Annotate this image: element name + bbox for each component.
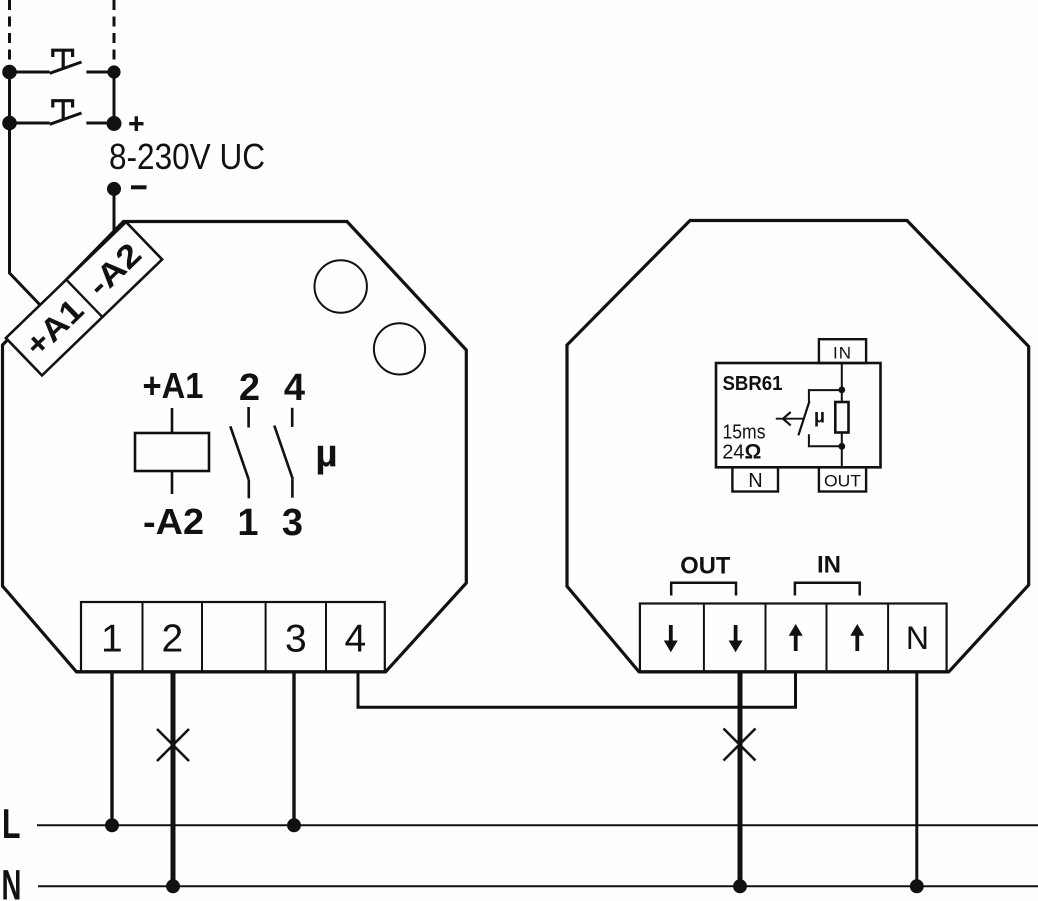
svg-text:1: 1 (101, 618, 123, 661)
svg-text:N: N (906, 620, 929, 656)
pushbutton T1 wire left (10, 71, 50, 74)
terminal strip right octagon (639, 604, 949, 672)
rail L (37, 824, 1038, 826)
svg-text:IN: IN (817, 552, 841, 579)
svg-text:2: 2 (161, 618, 183, 661)
pushbutton T2 blade (50, 113, 82, 124)
wire: dashed lead-in left pushbutton (8, 0, 11, 66)
wire: terminal 1 to L (110, 671, 113, 825)
wire: right OUT terminal to N thick (738, 671, 743, 886)
device: right octagon outline (567, 221, 1029, 672)
wire: terminal 2 to N thick (171, 671, 176, 886)
contact switch 1-2 (230, 407, 249, 498)
node: plus terminal dot (107, 116, 122, 131)
svg-text:µ: µ (814, 407, 825, 428)
node: pushbutton junction dots (2, 65, 17, 80)
wire: IN to OUT main line (841, 363, 843, 467)
pushbutton T2 wire left (10, 122, 50, 125)
pushbutton T2 wire right (86, 122, 114, 125)
wire: left vertical bus from pushbuttons down to +A1 terminal (10, 72, 43, 307)
control input arrow (776, 412, 805, 425)
svg-text:3: 3 (282, 502, 303, 544)
contact blade SBR61 (798, 401, 809, 435)
pushbutton T1 wire right (86, 71, 114, 74)
feature: mounting hole upper (315, 260, 367, 312)
label: arrow up terminal 4 (850, 624, 864, 651)
device: left octagon outline (3, 222, 467, 672)
contact switch 3-4 (274, 408, 293, 498)
svg-text:-A2: -A2 (143, 501, 204, 542)
label: arrow up terminal 3 (789, 624, 803, 651)
mark: cross on left terminal-2 wire (157, 729, 189, 761)
svg-text:3: 3 (285, 618, 307, 661)
wire: dashed lead-in right pushbutton (113, 0, 116, 66)
wire: between pushbutton outputs (113, 72, 116, 123)
svg-text:OUT: OUT (824, 471, 861, 490)
pushbutton T1 blade (50, 62, 82, 73)
wire: right N terminal to N rail (915, 671, 918, 886)
svg-text:N: N (2, 860, 22, 901)
bracket: OUT group (671, 583, 736, 596)
svg-text:24: 24 (722, 442, 744, 464)
svg-text:4: 4 (284, 367, 305, 409)
node: N dot left (166, 879, 180, 893)
svg-text:OUT: OUT (680, 553, 730, 580)
label: plus sign (129, 116, 143, 131)
svg-text:Ω: Ω (745, 441, 762, 464)
svg-text:1: 1 (237, 502, 258, 544)
rail N (38, 885, 1038, 887)
node: N dot right N (910, 879, 924, 893)
node: junction bottom (838, 443, 845, 450)
svg-text:4: 4 (345, 618, 367, 661)
pin box N (732, 467, 778, 491)
terminal strip left octagon (76, 602, 385, 672)
svg-text:8-230V UC: 8-230V UC (109, 136, 265, 177)
label: arrow down terminal 2 (729, 625, 743, 652)
pin box OUT (819, 467, 866, 491)
node: L dot terminal 1 (105, 818, 119, 832)
svg-text:+A1: +A1 (143, 365, 204, 406)
node: minus terminal dot (107, 182, 121, 196)
svg-text:µ: µ (315, 433, 337, 476)
terminal block: +A1/-A2 rotated label box (6, 222, 162, 375)
pushbutton T1 actuator (53, 50, 73, 57)
svg-text:IN: IN (833, 343, 852, 362)
module SBR61 box (716, 363, 881, 467)
svg-text:L: L (2, 800, 20, 847)
label: minus sign (131, 185, 147, 189)
node: L dot terminal 3 (287, 818, 301, 832)
mark: cross on right OUT wire (724, 729, 756, 761)
label: arrow down terminal 1 (664, 625, 678, 652)
relay coil K1 (135, 408, 209, 494)
svg-text:SBR61: SBR61 (723, 373, 783, 395)
wire: contact branch bracket (809, 390, 842, 446)
node: junction top (838, 387, 845, 394)
svg-text:N: N (748, 470, 762, 492)
wire: terminal 4 to right IN (358, 671, 796, 707)
wire: from minus dot to device edge (113, 189, 116, 236)
pushbutton T2 actuator (53, 101, 73, 108)
pin box IN (819, 339, 866, 363)
feature: mounting hole lower (374, 323, 425, 374)
bracket: IN group (795, 583, 860, 596)
node: N dot right OUT (733, 879, 747, 893)
resistor R1 (835, 402, 848, 433)
svg-text:2: 2 (239, 367, 260, 409)
wire: terminal 3 to L (292, 671, 295, 825)
